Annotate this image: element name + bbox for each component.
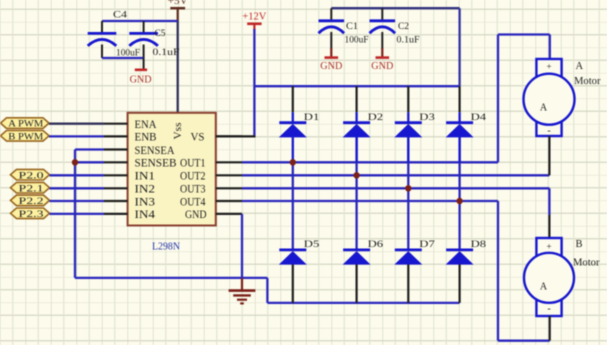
wire P2.0 to IN1	[50, 174, 105, 176]
power GND label below C2	[371, 61, 393, 72]
U1 pin name OUT1	[180, 158, 206, 170]
svg-text:IN4: IN4	[135, 209, 156, 221]
svg-text:P2.1: P2.1	[19, 184, 44, 194]
diode D5 label	[304, 240, 320, 250]
svg-text:SENSEB: SENSEB	[135, 158, 177, 170]
svg-text:B PWM: B PWM	[8, 132, 44, 142]
wire motor B top pin	[548, 215, 550, 238]
wire motor B bottom	[498, 340, 550, 342]
svg-text:D5: D5	[304, 240, 320, 250]
capacitor C2 bottom lead	[381, 32, 383, 49]
svg-text:P2.2: P2.2	[19, 197, 44, 207]
capacitor C1 bottom plate arc	[319, 27, 345, 33]
svg-text:0.1uF: 0.1uF	[397, 36, 420, 46]
U1 pin stub VS	[216, 135, 242, 137]
motor B label line1	[576, 239, 583, 250]
capacitor C4 value 100uF	[116, 49, 140, 59]
wire OUT3	[242, 187, 549, 189]
node SENSEA-SENSEB junction	[72, 159, 78, 165]
U1 pin stub ENB	[104, 135, 128, 137]
wire C4 C5 bottom	[102, 57, 144, 59]
wire SENSEA left	[75, 148, 104, 150]
capacitor C5 value 0.1uF	[153, 48, 180, 58]
diode D3 label	[419, 113, 435, 123]
U1 pin name GND	[185, 209, 207, 221]
svg-text:A: A	[540, 103, 548, 114]
wire +12V down	[253, 29, 255, 138]
svg-text:Vss: Vss	[173, 122, 184, 139]
U1 pin stub OUT2	[216, 174, 242, 176]
U1 pin name SENSEA	[135, 145, 175, 157]
U1 pin name VS	[191, 132, 205, 144]
capacitor C5 label	[155, 29, 166, 39]
U1 pin stub OUT3	[216, 187, 242, 189]
U1 designator L298N	[152, 241, 180, 253]
svg-text:P2.3: P2.3	[19, 210, 44, 220]
wire SENSEB left	[75, 161, 104, 163]
capacitor C4 label	[113, 11, 127, 21]
svg-text:OUT1: OUT1	[180, 158, 206, 170]
power GND label below C1	[320, 61, 342, 72]
wire +5V rail to C4 C5	[102, 20, 178, 22]
svg-text:C2: C2	[398, 22, 409, 32]
svg-text:VS: VS	[191, 132, 205, 144]
wire top rail C1 C2	[331, 7, 459, 9]
svg-text:L298N: L298N	[152, 241, 180, 253]
svg-text:A: A	[540, 282, 548, 293]
ground earth bar2	[233, 294, 251, 296]
node OUT4-D4 junction	[456, 198, 462, 204]
wire D4-D8 column	[458, 137, 460, 250]
motor A body rect	[536, 59, 561, 136]
svg-text:+: +	[546, 242, 551, 252]
diode D2 label	[368, 113, 384, 123]
capacitor C1 top lead	[330, 8, 332, 20]
svg-text:D6: D6	[368, 240, 384, 250]
svg-text:D4: D4	[471, 113, 487, 123]
U1 pin name OUT2	[180, 171, 206, 183]
wire motor A top drop	[549, 35, 551, 60]
capacitor C4 top lead	[101, 21, 103, 33]
U1 pin stub ENA	[104, 123, 128, 125]
diode D3	[394, 86, 422, 162]
diode D1	[279, 86, 307, 162]
wire rail riser at D4 column	[458, 8, 460, 86]
motor B letter	[540, 282, 548, 293]
U1 pin stub IN4	[104, 213, 128, 215]
capacitor C1 bottom lead	[330, 32, 332, 49]
power GND bar below C5	[135, 69, 147, 72]
U1 pin stub OUT4	[216, 200, 242, 202]
port P2.1	[11, 182, 50, 194]
svg-text:IN1: IN1	[135, 171, 156, 183]
ground earth bar3	[237, 299, 247, 301]
svg-text:D2: D2	[368, 113, 384, 123]
power +5V bar	[170, 7, 185, 10]
capacitor C2 value 0.1uF	[397, 36, 420, 46]
wire diode bottom rail	[267, 302, 459, 304]
U1 pin name OUT4	[180, 196, 206, 208]
svg-text:ENB: ENB	[135, 132, 157, 144]
svg-text:+5V: +5V	[168, 0, 188, 7]
diode D8 label	[471, 240, 487, 250]
ground earth stem	[241, 278, 243, 290]
U1 pin stub OUT1	[216, 161, 242, 163]
wire GND pin down	[241, 214, 243, 278]
capacitor C5 bottom lead	[143, 45, 145, 59]
diode D4 label	[471, 113, 487, 123]
power +5V label	[168, 0, 188, 7]
svg-text:GND: GND	[130, 75, 152, 86]
U1 pin name IN2	[135, 184, 156, 196]
svg-text:GND: GND	[185, 209, 207, 221]
svg-text:GND: GND	[371, 61, 393, 72]
diode D7	[394, 250, 422, 303]
motor A letter	[540, 103, 548, 114]
capacitor C2 top plate	[370, 19, 396, 22]
svg-text:0.1uF: 0.1uF	[153, 48, 180, 58]
capacitor C1 label	[346, 22, 358, 32]
svg-text:+: +	[546, 62, 551, 72]
wire P2.2 to IN3	[50, 200, 105, 202]
svg-text:B: B	[576, 239, 583, 250]
diode D7 label	[419, 240, 435, 250]
wire motor B bottom pin	[549, 316, 551, 341]
motor A minus	[547, 126, 550, 137]
capacitor C5 top lead	[143, 21, 145, 33]
motor A label line1	[576, 61, 584, 72]
wire OUT2	[242, 174, 549, 176]
power +12V stem	[253, 24, 255, 30]
node OUT3-D3 junction	[405, 185, 411, 191]
U1 pin stub SENSEB	[104, 161, 128, 163]
U1 pin name IN4	[135, 209, 156, 221]
motor A label line2	[574, 76, 601, 87]
capacitor C2 bottom plate arc	[370, 27, 396, 33]
capacitor C4 bottom lead	[101, 45, 103, 59]
svg-text:OUT2: OUT2	[180, 171, 206, 183]
U1 pin name ENB	[135, 132, 157, 144]
svg-text:Motor: Motor	[573, 258, 600, 269]
power +5V stem	[177, 8, 179, 21]
wire D2-D6 column	[355, 137, 357, 250]
ground earth bar1	[229, 289, 256, 292]
svg-text:OUT3: OUT3	[180, 184, 206, 196]
motor B body rect	[536, 238, 561, 316]
svg-text:A PWM: A PWM	[8, 120, 44, 130]
power +12V bar	[247, 22, 261, 25]
svg-text:D1: D1	[304, 113, 320, 123]
U1 pin name IN3	[135, 196, 156, 208]
power GND bar below C2	[376, 56, 390, 59]
diode D6	[343, 250, 371, 303]
U1 pin stub SENSEA	[104, 148, 128, 150]
svg-text:SENSEA: SENSEA	[135, 145, 175, 157]
node OUT2-D2 junction	[353, 172, 359, 178]
wire OUT4	[242, 200, 498, 202]
motor A body circle	[524, 74, 575, 125]
diode D1 label	[304, 113, 320, 123]
svg-text:A: A	[576, 61, 584, 72]
svg-text:100uF: 100uF	[345, 36, 369, 46]
svg-text:D7: D7	[419, 240, 435, 250]
wire D3-D7 column	[407, 137, 409, 250]
U1 pin stub IN2	[104, 187, 128, 189]
wire P2.1 to IN2	[50, 187, 105, 189]
svg-text:-: -	[547, 126, 550, 137]
wire OUT1	[242, 161, 498, 163]
svg-text:+12V: +12V	[242, 11, 266, 23]
wire OUT4 drop	[497, 201, 499, 341]
power GND stem below C1	[330, 48, 332, 57]
capacitor C5 bottom plate arc	[129, 39, 158, 45]
svg-text:IN3: IN3	[135, 196, 156, 208]
U1 pin name Vss rotated	[173, 122, 184, 139]
capacitor C4 top plate	[88, 32, 117, 35]
motor B label line2	[573, 258, 600, 269]
wire OUT1 riser	[497, 35, 499, 163]
svg-text:IN2: IN2	[135, 184, 156, 196]
U1 pin name SENSEB	[135, 158, 177, 170]
wire A PWM to ENA	[49, 123, 104, 125]
svg-text:C1: C1	[346, 22, 358, 32]
motor B plus	[546, 242, 551, 252]
U1 pin name OUT3	[180, 184, 206, 196]
ground earth bar4	[240, 302, 244, 304]
diode D8	[446, 250, 474, 303]
wire ground bus corner down	[266, 278, 268, 303]
svg-text:GND: GND	[320, 61, 342, 72]
port P2.0	[11, 169, 50, 181]
svg-text:P2.0: P2.0	[19, 171, 44, 181]
wire B PWM to ENB	[49, 135, 104, 137]
diode D2	[343, 86, 371, 162]
capacitor C4 bottom plate arc	[88, 39, 117, 45]
diode D5	[279, 250, 307, 303]
wire ground bus horizontal	[75, 277, 267, 279]
capacitor C1 top plate	[319, 19, 345, 22]
capacitor C2 top lead	[381, 8, 383, 20]
wire motor A bottom pin	[548, 136, 550, 175]
wire P2.3 to IN4	[50, 213, 105, 215]
power GND stem below C2	[381, 48, 383, 57]
power GND label below C5	[130, 75, 152, 86]
port B PWM	[1, 131, 50, 143]
svg-text:OUT4: OUT4	[180, 196, 206, 208]
capacitor C2 label	[398, 22, 409, 32]
wire +12V rail to diodes	[254, 85, 459, 87]
wire +5V to U1 Vss pin	[177, 21, 179, 114]
port A PWM	[1, 118, 50, 130]
power GND stem below C5	[143, 58, 145, 69]
power +12V label	[242, 11, 266, 23]
wire SENSE vertical	[74, 150, 76, 278]
diode D4	[446, 86, 474, 162]
U1 pin stub IN1	[104, 174, 128, 176]
wire VS to +12V	[216, 135, 256, 137]
U1 pin name IN1	[135, 171, 156, 183]
capacitor C1 value 100uF	[345, 36, 369, 46]
wire OUT3 drop blue	[548, 188, 550, 215]
U1 pin stub GND	[216, 213, 242, 215]
svg-text:ENA: ENA	[135, 119, 157, 131]
svg-text:-: -	[547, 304, 550, 315]
motor B minus	[547, 304, 550, 315]
diode D6 label	[368, 240, 384, 250]
svg-text:C5: C5	[155, 29, 166, 39]
power GND bar below C1	[325, 56, 339, 59]
capacitor C5 top plate	[129, 32, 158, 35]
svg-text:D8: D8	[471, 240, 487, 250]
svg-text:D3: D3	[419, 113, 435, 123]
wire motor A top	[498, 33, 550, 35]
motor A plus	[546, 62, 551, 72]
port P2.2	[11, 195, 50, 207]
svg-text:C4: C4	[113, 11, 127, 21]
U1 pin name ENA	[135, 119, 157, 131]
U1 pin stub IN3	[104, 200, 128, 202]
node OUT1-D1 junction	[290, 159, 296, 165]
svg-text:Motor: Motor	[574, 76, 601, 87]
wire D1-D5 column	[292, 162, 294, 250]
port P2.3	[11, 208, 50, 220]
motor B body circle	[524, 253, 574, 303]
op-amp U1 L298N body	[128, 113, 216, 226]
